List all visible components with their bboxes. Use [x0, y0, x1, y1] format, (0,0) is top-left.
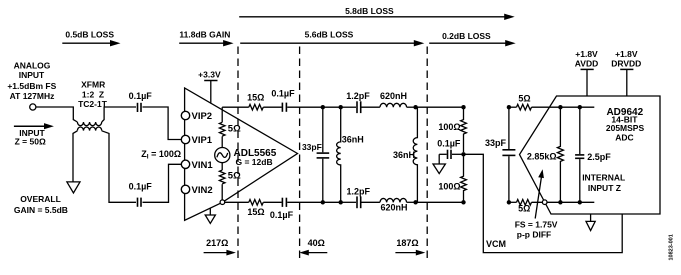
resistor R6 5Ω (bottom): [517, 200, 532, 214]
wire bottom rail C5 to L1: [323, 201, 341, 203]
svg-text:VIP1: VIP1: [192, 135, 213, 146]
supply +1.8V AVDD: [575, 49, 598, 96]
node dot bottom L1: [339, 200, 343, 204]
svg-text:0.5dB LOSS: 0.5dB LOSS: [65, 29, 114, 39]
+3.3V supply: [198, 69, 221, 103]
resistor R5 5Ω (top): [517, 94, 532, 110]
svg-text:Z = 50Ω: Z = 50Ω: [15, 136, 46, 146]
svg-text:G = 12dB: G = 12dB: [236, 157, 273, 167]
resistor R2 15Ω (bottom): [247, 200, 264, 217]
svg-text:1.2pF: 1.2pF: [347, 186, 371, 196]
inductor L3 620nH (bottom series): [380, 198, 408, 212]
svg-text:5.8dB LOSS: 5.8dB LOSS: [345, 6, 394, 16]
svg-text:INPUT Z: INPUT Z: [588, 183, 621, 193]
wire L2 to node: [407, 106, 416, 108]
wire bottom rail L1 to C7: [341, 201, 356, 203]
node dot VCM junction: [461, 152, 465, 156]
transformer T1 primary winding: [77, 122, 101, 126]
svg-text:2.5pF: 2.5pF: [587, 152, 611, 162]
label FS = 1.75V p-p DIFF: [515, 220, 558, 240]
svg-text:0.1µF: 0.1µF: [270, 210, 294, 220]
wire bottom rail C9 to R6: [509, 201, 517, 203]
svg-text:+3.3V: +3.3V: [198, 69, 221, 79]
svg-text:0.1µF: 0.1µF: [129, 91, 153, 101]
wire C2 to VIN1: [143, 164, 182, 202]
node 217Ω impedance arrow: [204, 238, 236, 255]
svg-text:620nH: 620nH: [380, 91, 407, 101]
wire L3 to node: [407, 201, 416, 203]
resistor R1 15Ω (top): [247, 92, 264, 110]
svg-text:36nH: 36nH: [393, 150, 415, 160]
svg-text:0.2dB LOSS: 0.2dB LOSS: [442, 31, 491, 41]
wire resistor to output node: [221, 184, 223, 200]
svg-text:VIN1: VIN1: [192, 160, 214, 171]
node dot top L1: [339, 105, 343, 109]
svg-text:XFMR: XFMR: [81, 79, 105, 89]
svg-text:0.1µF: 0.1µF: [129, 182, 153, 192]
capacitor C8 0.1µF (VCM bypass): [437, 138, 463, 159]
svg-text:10823-001: 10823-001: [669, 234, 675, 260]
svg-text:2.85kΩ: 2.85kΩ: [527, 151, 557, 161]
wire R5 into ADC: [532, 106, 595, 108]
wire resistor to source: [221, 136, 223, 147]
transformer T1 XFMR 1:2 TC2-1T label: [78, 79, 108, 109]
annotation arrow 5.8dB LOSS: [239, 6, 515, 20]
wire source to resistor: [221, 163, 223, 170]
capacitor C7 1.2pF (bottom series): [347, 186, 371, 208]
wire transformer bottom-left to ground: [73, 131, 77, 182]
label ANALOG INPUT +1.5dBm FS AT 127MHz: [7, 61, 56, 102]
node dot bottom C9: [507, 200, 511, 204]
svg-text:15Ω: 15Ω: [247, 207, 264, 217]
boundary dashed line 1: [237, 47, 239, 262]
wire R2 to C4: [263, 201, 281, 203]
svg-text:11.8dB GAIN: 11.8dB GAIN: [179, 29, 230, 39]
svg-text:DRVDD: DRVDD: [611, 58, 641, 68]
input terminal J1: [30, 104, 36, 110]
svg-text:p-p DIFF: p-p DIFF: [517, 229, 551, 239]
label INPUT Z = 50Ω with arrow: [14, 123, 54, 146]
wire op-amp top output: [222, 106, 249, 108]
wire bottom rail L4 to terminator: [416, 201, 464, 203]
inductor L2 620nH (top series): [380, 91, 407, 107]
svg-text:5Ω: 5Ω: [228, 171, 241, 182]
AC source symbol: [215, 148, 230, 163]
node dot bottom C10: [578, 200, 582, 204]
svg-text:TC2-1T: TC2-1T: [78, 99, 108, 109]
pin VIP1: [181, 135, 213, 146]
resistor R7 2.85kΩ (ADC internal): [527, 107, 564, 202]
label INTERNAL INPUT Z: [582, 172, 625, 193]
wire C6 to L2: [362, 106, 380, 108]
svg-text:+1.5dBm FS: +1.5dBm FS: [7, 81, 56, 91]
node 40Ω impedance arrow: [299, 238, 327, 255]
svg-text:100Ω: 100Ω: [438, 182, 460, 192]
capacitor C2 0.1µF (bottom coupling): [129, 182, 153, 207]
svg-text:1:2 Z: 1:2 Z: [82, 89, 104, 99]
boundary dashed line 3: [426, 47, 428, 262]
wire top rail C9 to R5: [509, 106, 517, 108]
label AD9642 14-BIT 205MSPS ADC: [606, 107, 645, 143]
capacitor C6 1.2pF (top series): [346, 91, 370, 113]
svg-text:FS = 1.75V: FS = 1.75V: [515, 220, 558, 230]
svg-text:INPUT: INPUT: [19, 70, 45, 80]
wire C7 to L3: [362, 201, 380, 203]
ADC U2 AD9642 package outline: [520, 96, 661, 214]
pin VIP2: [181, 111, 212, 122]
node dot bottom R7: [558, 200, 562, 204]
node dot top C10: [578, 105, 582, 109]
annotation arrow 0.2dB LOSS: [429, 31, 516, 47]
svg-text:5.6dB LOSS: 5.6dB LOSS: [305, 30, 354, 40]
node 187Ω impedance arrow: [395, 238, 425, 255]
capacitor C5 33pF (shunt): [302, 107, 329, 202]
inductor L1 36nH (shunt): [337, 107, 364, 202]
resistor R3 100Ω (upper termination): [438, 107, 466, 152]
svg-text:217Ω: 217Ω: [206, 238, 228, 248]
node dot top C5: [321, 105, 325, 109]
capacitor C10 2.5pF (ADC internal): [575, 107, 611, 202]
capacitor C3 0.1µF (top series): [271, 89, 295, 112]
ground at C8: [433, 154, 445, 173]
svg-text:36nH: 36nH: [342, 134, 364, 144]
svg-text:187Ω: 187Ω: [396, 238, 418, 248]
capacitor C1 0.1µF (top coupling): [129, 91, 153, 112]
svg-text:205MSPS: 205MSPS: [606, 123, 645, 133]
wire C4 to filter: [287, 201, 323, 203]
node dot bottom R4: [461, 200, 465, 204]
op-amp U1 ADL5565 triangle: [185, 88, 298, 220]
label OVERALL GAIN = 5.5dB: [14, 194, 68, 215]
wire R6 into ADC: [532, 201, 595, 203]
svg-text:5Ω: 5Ω: [518, 94, 530, 104]
svg-text:OVERALL: OVERALL: [20, 194, 61, 204]
svg-text:VIP2: VIP2: [192, 111, 213, 122]
svg-text:ADC: ADC: [615, 133, 633, 143]
annotation arrow 0.5dB LOSS: [62, 29, 120, 46]
wire transformer top-right to C1: [102, 107, 136, 122]
annotation arrow 5.6dB LOSS: [240, 30, 424, 47]
node output junction circle: [220, 200, 225, 205]
capacitor C9 33pF (shunt at ADC): [485, 107, 515, 202]
node dot bottom C5: [321, 200, 325, 204]
node dot top R7: [558, 105, 562, 109]
wire internal chain top: [221, 107, 223, 122]
node dot top R3: [461, 105, 465, 109]
svg-text:0.1µF: 0.1µF: [437, 138, 461, 148]
ground below ADC: [586, 214, 595, 231]
pin VIN2: [181, 185, 212, 196]
FS arrow: [535, 169, 544, 218]
annotation arrow 11.8dB GAIN: [179, 29, 233, 46]
node dot bottom L4: [413, 200, 417, 204]
wire VCM net: [464, 154, 623, 252]
svg-text:AT 127MHz: AT 127MHz: [10, 91, 55, 101]
svg-text:1.2pF: 1.2pF: [346, 91, 370, 101]
wire transformer bottom-right to C2: [102, 131, 136, 203]
inductor L4 36nH (shunt right): [393, 107, 417, 202]
wire C1 to VIP1: [143, 107, 182, 140]
svg-text:VCM: VCM: [486, 239, 506, 249]
wire op-amp bottom output: [225, 201, 249, 203]
resistor R4 100Ω (lower termination): [438, 157, 466, 203]
svg-text:AVDD: AVDD: [575, 58, 598, 68]
svg-text:33pF: 33pF: [302, 142, 322, 152]
svg-text:VIN2: VIN2: [192, 185, 213, 196]
wire C3 to filter: [287, 106, 323, 108]
node input circle on ADC edge: [542, 200, 547, 205]
wire R1 to C3: [263, 106, 281, 108]
label ADL5565 G = 12dB: [234, 148, 277, 167]
resistor 5Ω (lower internal): [219, 170, 241, 184]
svg-text:GAIN = 5.5dB: GAIN = 5.5dB: [14, 205, 68, 215]
svg-text:33pF: 33pF: [485, 138, 507, 148]
wire input to transformer: [36, 107, 77, 122]
ground below op-amp: [205, 208, 215, 223]
svg-text:INTERNAL: INTERNAL: [582, 172, 625, 182]
supply +1.8V DRVDD: [611, 49, 641, 96]
svg-text:40Ω: 40Ω: [308, 238, 325, 248]
node dot top C9: [507, 105, 511, 109]
pin VIN1: [181, 160, 213, 171]
svg-text:0.1µF: 0.1µF: [271, 89, 295, 99]
ground below transformer: [67, 182, 80, 193]
resistor 5Ω (upper internal): [219, 122, 241, 136]
svg-text:100Ω: 100Ω: [438, 122, 460, 132]
svg-text:5Ω: 5Ω: [228, 124, 241, 135]
node dot top L4: [413, 105, 417, 109]
boundary dashed line 2: [299, 47, 301, 262]
wire top rail L1 to C6: [341, 106, 356, 108]
svg-text:15Ω: 15Ω: [247, 92, 264, 102]
transformer T1 secondary winding: [77, 127, 101, 131]
capacitor C4 0.1µF (bottom series): [270, 198, 294, 220]
svg-text:620nH: 620nH: [380, 203, 407, 213]
wire top rail C5 to L1: [323, 106, 341, 108]
wire top rail L4 to terminator: [416, 106, 464, 108]
